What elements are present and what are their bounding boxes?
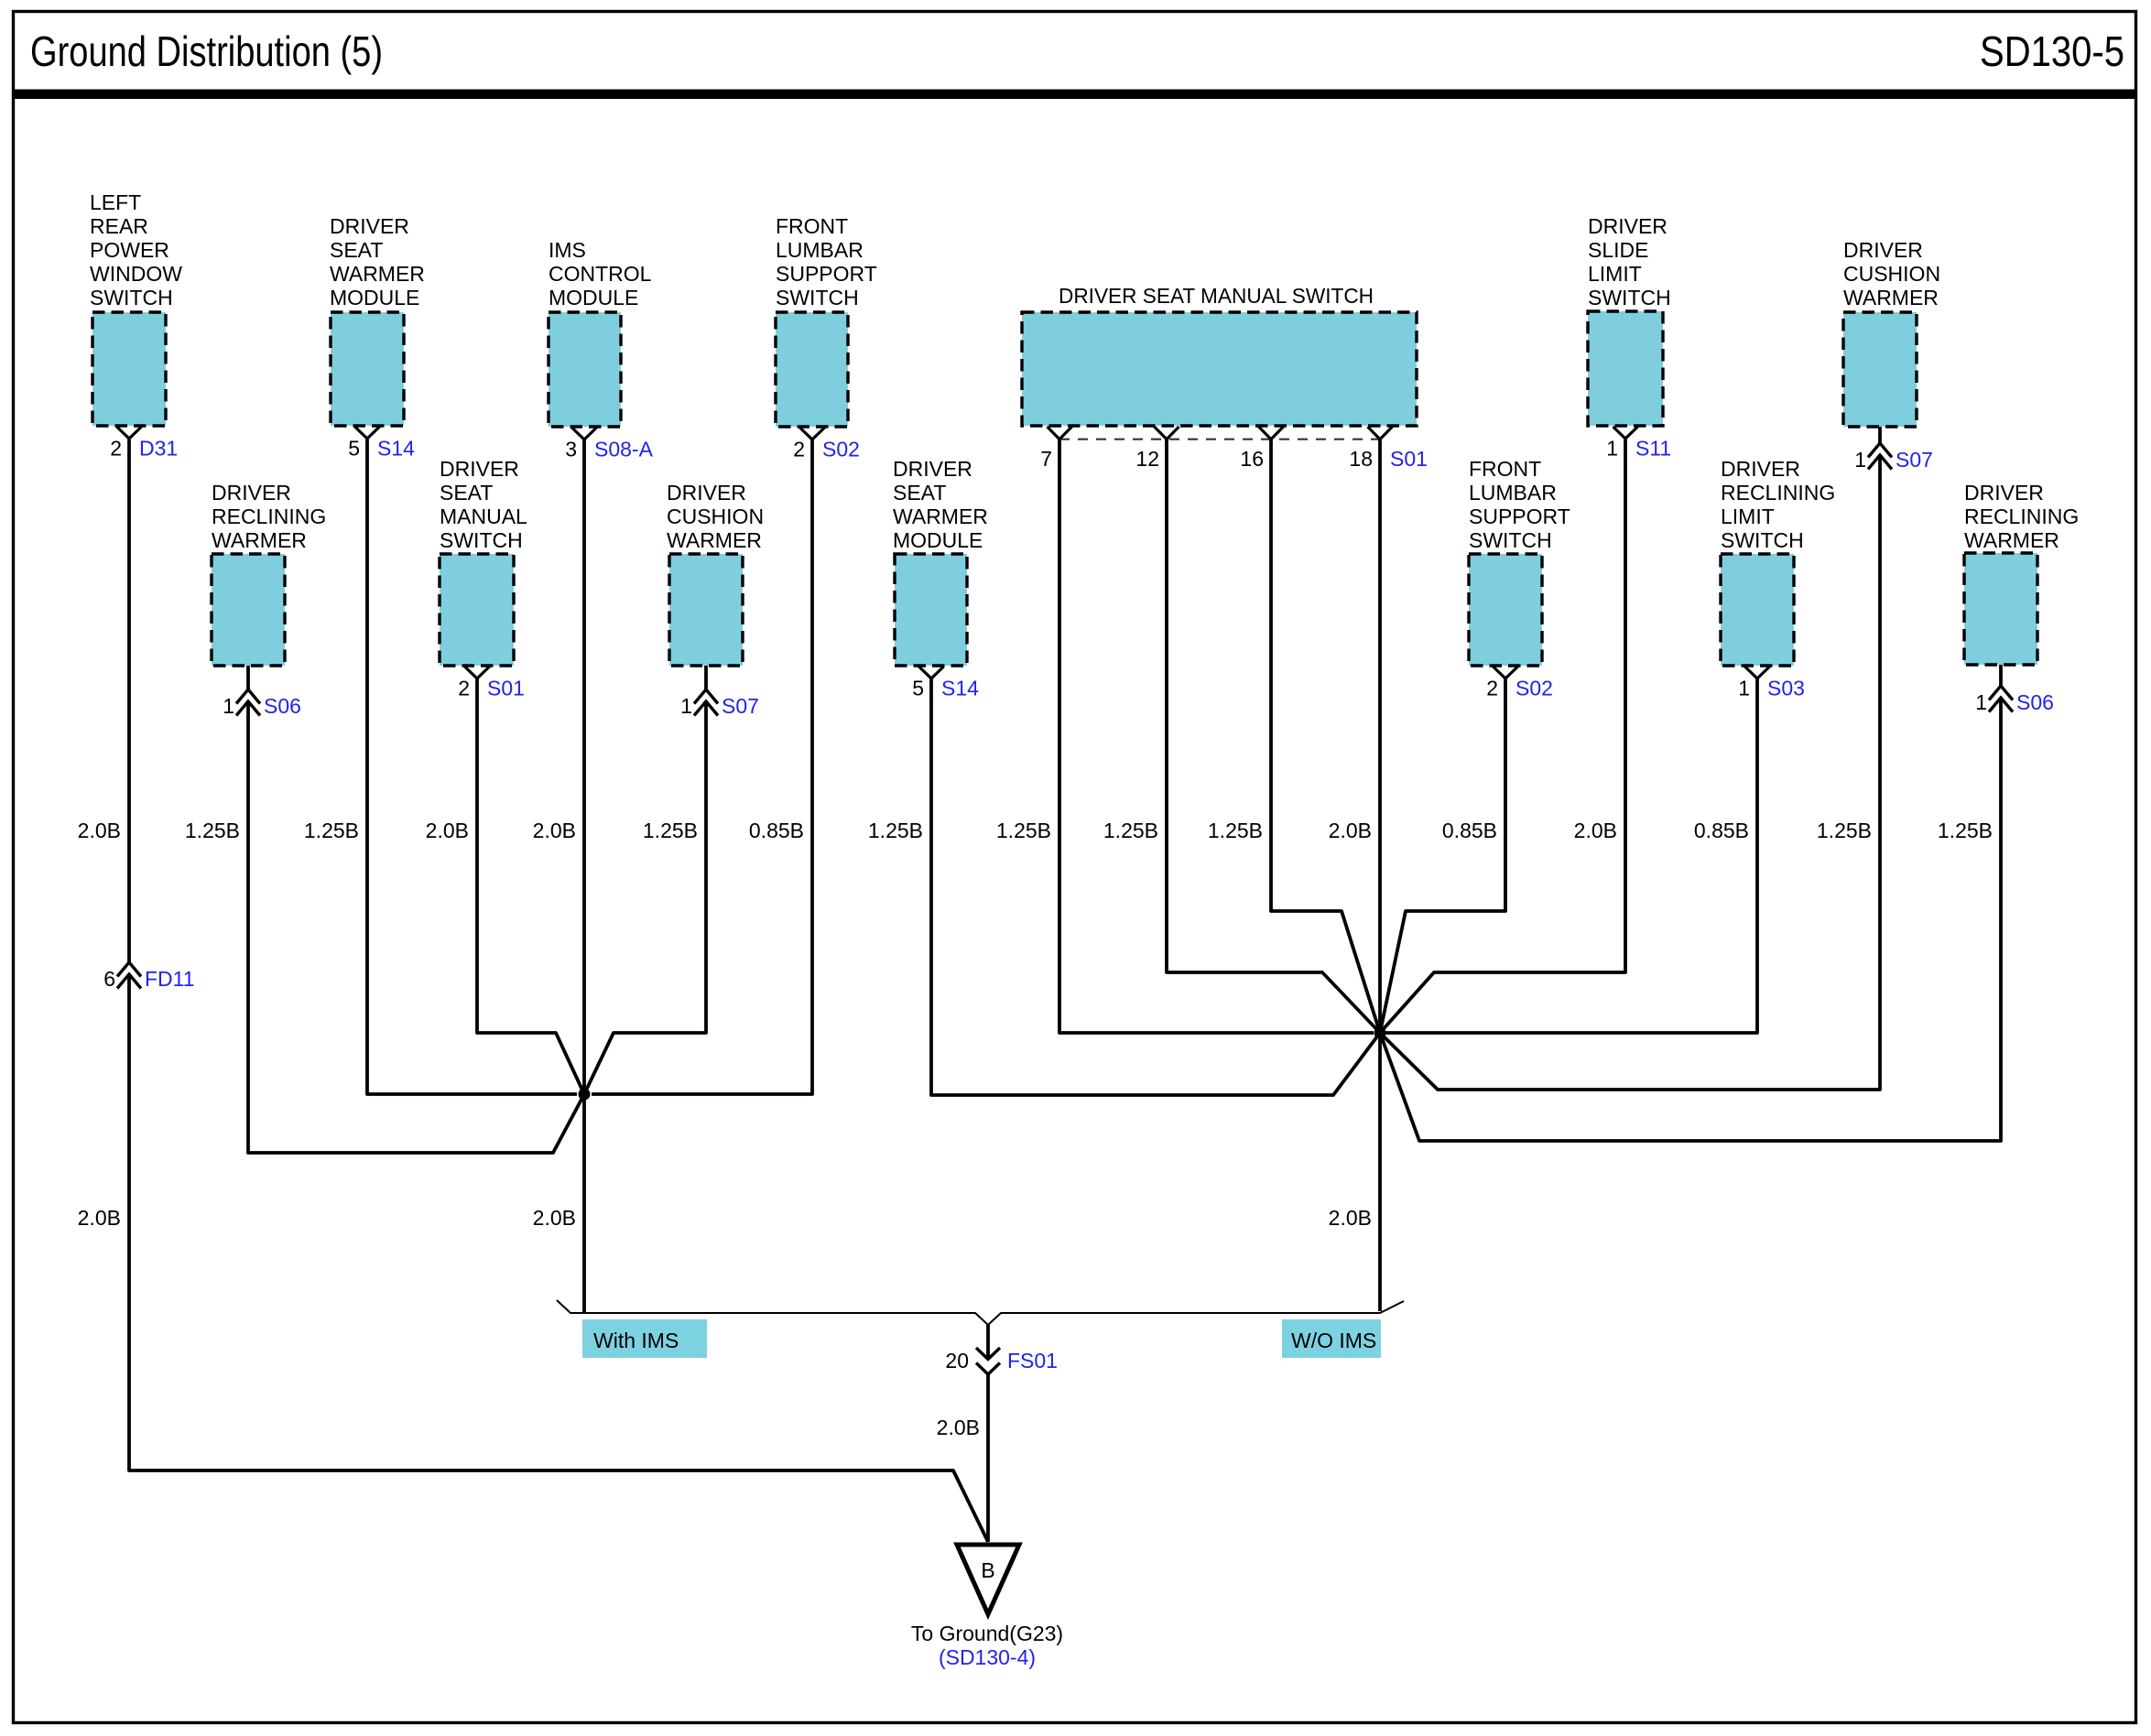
svg-text:DRIVER: DRIVER	[440, 457, 519, 481]
svg-text:WARMER: WARMER	[1964, 528, 2059, 552]
svg-text:S01: S01	[1390, 447, 1428, 471]
svg-text:LIMIT: LIMIT	[1721, 505, 1775, 528]
junction dot left	[579, 1089, 591, 1101]
svg-text:6: 6	[103, 967, 115, 991]
svg-text:DRIVER: DRIVER	[893, 457, 972, 481]
svg-text:FS01: FS01	[1007, 1349, 1058, 1373]
label DRIVER RECLINING LIMIT SWITCH	[1721, 457, 1835, 552]
svg-text:SD130-5: SD130-5	[1980, 27, 2124, 75]
svg-text:MODULE: MODULE	[549, 286, 638, 309]
svg-text:SWITCH: SWITCH	[90, 286, 173, 309]
svg-text:DRIVER: DRIVER	[330, 214, 409, 238]
connector S01 pin 16	[1240, 427, 1283, 471]
title separator bar	[12, 90, 2137, 100]
svg-text:2.0B: 2.0B	[533, 1206, 576, 1230]
svg-text:16: 16	[1240, 447, 1264, 471]
svg-text:5: 5	[348, 437, 360, 461]
label DRIVER SLIDE LIMIT SWITCH	[1588, 214, 1671, 309]
svg-text:IMS: IMS	[549, 238, 586, 262]
svg-text:S14: S14	[377, 437, 415, 461]
svg-text:WARMER: WARMER	[893, 505, 988, 528]
svg-text:1.25B: 1.25B	[1208, 819, 1263, 842]
component DRIVER RECLINING WARMER (right)	[1964, 553, 2037, 665]
svg-text:WINDOW: WINDOW	[90, 262, 182, 286]
svg-text:LUMBAR: LUMBAR	[1469, 481, 1557, 505]
wire pin16 to junction	[1271, 439, 1380, 1033]
svg-text:LIMIT: LIMIT	[1588, 262, 1642, 286]
component DRIVER RECLINING LIMIT SWITCH	[1721, 554, 1794, 666]
svg-text:LUMBAR: LUMBAR	[776, 238, 864, 262]
svg-text:SUPPORT: SUPPORT	[776, 262, 877, 286]
svg-text:0.85B: 0.85B	[749, 819, 804, 842]
svg-text:1: 1	[223, 694, 234, 718]
svg-text:DRIVER: DRIVER	[212, 481, 291, 505]
wire S03 to junction	[1380, 678, 1757, 1033]
label DRIVER CUSHION WARMER (mid)	[667, 481, 764, 552]
svg-text:WARMER: WARMER	[1843, 286, 1939, 309]
svg-text:RECLINING: RECLINING	[1964, 505, 2079, 528]
svg-text:S11: S11	[1635, 437, 1671, 461]
svg-text:DRIVER SEAT MANUAL SWITCH: DRIVER SEAT MANUAL SWITCH	[1059, 284, 1374, 308]
svg-text:2: 2	[458, 677, 470, 700]
svg-text:SEAT: SEAT	[893, 481, 946, 505]
connector S01 pin 7	[1040, 427, 1071, 471]
svg-text:B: B	[981, 1558, 994, 1582]
wire S06 left to junction	[248, 701, 584, 1153]
svg-text:S08-A: S08-A	[594, 438, 654, 461]
svg-text:1: 1	[1975, 690, 1987, 714]
svg-text:1.25B: 1.25B	[1938, 819, 1993, 842]
svg-text:D31: D31	[139, 437, 178, 461]
svg-text:1.25B: 1.25B	[304, 819, 359, 842]
wire S07 top to junction	[1380, 455, 1880, 1090]
wire S02 mid to junction	[1380, 678, 1505, 1033]
connector S01 pin 2	[458, 667, 525, 700]
connector S01 pin 18	[1349, 427, 1428, 471]
svg-text:12: 12	[1135, 447, 1159, 471]
wire S11 to junction	[1380, 439, 1625, 1033]
svg-text:WARMER: WARMER	[212, 528, 307, 552]
svg-text:2: 2	[1486, 677, 1498, 700]
svg-text:18: 18	[1349, 447, 1373, 471]
svg-text:W/O IMS: W/O IMS	[1291, 1329, 1376, 1352]
component DRIVER SEAT MANUAL SWITCH (large)	[1022, 312, 1417, 426]
wire S14 mid to junction	[931, 678, 1380, 1095]
svg-text:To Ground(G23): To Ground(G23)	[911, 1622, 1063, 1645]
svg-text:DRIVER: DRIVER	[1843, 238, 1923, 262]
label DRIVER SEAT WARMER MODULE (mid)	[893, 457, 988, 552]
svg-text:2.0B: 2.0B	[1329, 819, 1372, 842]
svg-text:RECLINING: RECLINING	[1721, 481, 1835, 505]
svg-text:S03: S03	[1767, 677, 1805, 700]
svg-text:MANUAL: MANUAL	[440, 505, 527, 528]
svg-text:1: 1	[680, 694, 692, 718]
svg-text:FRONT: FRONT	[1469, 457, 1541, 481]
ground symbol B (G23)	[957, 1545, 1019, 1614]
connector S07 pin 1 (top)	[1854, 427, 1933, 472]
connector FS01 pin 20	[945, 1348, 1058, 1374]
connector S03 pin 1	[1738, 667, 1805, 700]
connector S14 pin 5	[348, 427, 415, 461]
svg-text:RECLINING: RECLINING	[212, 505, 326, 528]
svg-text:S01: S01	[487, 677, 525, 700]
svg-text:S06: S06	[264, 694, 301, 718]
svg-text:3: 3	[565, 438, 577, 461]
svg-text:SLIDE: SLIDE	[1588, 238, 1648, 262]
svg-text:SWITCH: SWITCH	[440, 528, 523, 552]
label DRIVER SEAT MANUAL SWITCH (small)	[440, 457, 527, 552]
wire S07 mid to junction	[584, 701, 706, 1094]
svg-text:SWITCH: SWITCH	[1469, 528, 1552, 552]
wire pin7 to junction	[1059, 439, 1374, 1033]
component FRONT LUMBAR SUPPORT SWITCH (top)	[776, 312, 848, 427]
svg-text:DRIVER: DRIVER	[1721, 457, 1800, 481]
svg-text:SWITCH: SWITCH	[1588, 286, 1671, 309]
component DRIVER SEAT WARMER MODULE (top)	[331, 312, 404, 426]
svg-text:S07: S07	[1896, 448, 1933, 472]
svg-text:1.25B: 1.25B	[643, 819, 698, 842]
wire pin12 to junction	[1167, 439, 1380, 1033]
svg-text:WARMER: WARMER	[330, 262, 425, 286]
svg-text:2.0B: 2.0B	[1329, 1206, 1372, 1230]
svg-text:FD11: FD11	[145, 967, 195, 991]
svg-text:MODULE: MODULE	[330, 286, 419, 309]
component DRIVER CUSHION WARMER (mid)	[669, 554, 743, 666]
svg-text:(SD130-4): (SD130-4)	[939, 1645, 1036, 1669]
svg-text:2.0B: 2.0B	[78, 1206, 121, 1230]
svg-text:5: 5	[912, 677, 924, 700]
wire pin18 through junction to bracket	[1378, 439, 1382, 1311]
svg-text:Ground Distribution (5): Ground Distribution (5)	[30, 27, 383, 75]
label LEFT REAR POWER WINDOW SWITCH	[90, 190, 182, 309]
svg-text:2: 2	[110, 437, 122, 461]
svg-text:2.0B: 2.0B	[533, 819, 576, 842]
svg-text:1.25B: 1.25B	[185, 819, 240, 842]
svg-text:1: 1	[1738, 677, 1750, 700]
svg-text:SUPPORT: SUPPORT	[1469, 505, 1570, 528]
svg-text:2: 2	[793, 438, 805, 461]
label DRIVER RECLINING WARMER (left)	[212, 481, 326, 552]
component DRIVER CUSHION WARMER (top)	[1843, 312, 1917, 427]
svg-text:LEFT: LEFT	[90, 190, 141, 214]
svg-text:CUSHION: CUSHION	[667, 505, 764, 528]
wire S06 right to junction	[1380, 698, 2001, 1141]
svg-text:7: 7	[1040, 447, 1052, 471]
component DRIVER SEAT MANUAL SWITCH (small)	[440, 554, 514, 666]
svg-text:S07: S07	[722, 694, 759, 718]
connector S11 pin 1	[1606, 427, 1671, 461]
svg-text:DRIVER: DRIVER	[1964, 481, 2044, 505]
svg-text:REAR: REAR	[90, 214, 148, 238]
svg-text:POWER: POWER	[90, 238, 169, 262]
svg-text:1: 1	[1854, 448, 1866, 472]
wire D31 upper segment	[127, 439, 131, 962]
svg-text:S02: S02	[822, 438, 860, 461]
svg-text:SWITCH: SWITCH	[776, 286, 859, 309]
label DRIVER SEAT WARMER MODULE (top)	[330, 214, 425, 309]
svg-text:S14: S14	[941, 677, 979, 700]
svg-text:WARMER: WARMER	[667, 528, 762, 552]
wire S08-A through junction to bracket	[582, 439, 586, 1312]
option chip With IMS	[582, 1319, 707, 1358]
connector S02 pin 2	[793, 428, 860, 461]
component DRIVER RECLINING WARMER (left)	[212, 554, 285, 666]
connector S08-A pin 3	[565, 428, 653, 461]
svg-text:1.25B: 1.25B	[1103, 819, 1158, 842]
svg-text:CUSHION: CUSHION	[1843, 262, 1940, 286]
svg-text:With IMS: With IMS	[593, 1329, 679, 1352]
component DRIVER SEAT WARMER MODULE (mid)	[895, 554, 967, 666]
connector S02 pin 2 (mid)	[1486, 667, 1553, 700]
wire S01 small to junction	[477, 678, 584, 1094]
svg-text:SEAT: SEAT	[330, 238, 383, 262]
component IMS CONTROL MODULE	[549, 312, 621, 427]
svg-text:FRONT: FRONT	[776, 214, 848, 238]
svg-text:MODULE: MODULE	[893, 528, 983, 552]
option chip W/O IMS	[1282, 1319, 1381, 1358]
svg-text:1.25B: 1.25B	[996, 819, 1051, 842]
option bracket line	[557, 1300, 1404, 1325]
wire S02 to junction	[592, 439, 812, 1094]
component DRIVER SLIDE LIMIT SWITCH	[1588, 311, 1663, 426]
svg-text:1.25B: 1.25B	[1817, 819, 1872, 842]
svg-text:SWITCH: SWITCH	[1721, 528, 1804, 552]
svg-text:1: 1	[1606, 437, 1618, 461]
svg-text:20: 20	[945, 1349, 969, 1373]
svg-text:2.0B: 2.0B	[78, 819, 121, 842]
label IMS CONTROL MODULE	[549, 238, 652, 309]
svg-text:2.0B: 2.0B	[1574, 819, 1617, 842]
svg-text:2.0B: 2.0B	[426, 819, 469, 842]
connector S07 pin 1 (mid)	[680, 666, 759, 718]
junction dot right	[1374, 1027, 1386, 1039]
svg-text:DRIVER: DRIVER	[1588, 214, 1668, 238]
wire D31 lower segment to ground	[129, 974, 988, 1542]
connector FD11 pin 6	[103, 962, 194, 991]
label DRIVER RECLINING WARMER (right)	[1964, 481, 2079, 552]
wire S14 to junction	[367, 439, 577, 1094]
wire FS01 upper stub	[986, 1325, 990, 1359]
svg-text:S02: S02	[1515, 677, 1553, 700]
component FRONT LUMBAR SUPPORT SWITCH (mid)	[1469, 554, 1542, 666]
connector S06 pin 1 (right)	[1975, 665, 2054, 714]
svg-text:1.25B: 1.25B	[868, 819, 923, 842]
svg-text:2.0B: 2.0B	[937, 1416, 980, 1439]
label DRIVER CUSHION WARMER (top)	[1843, 238, 1940, 309]
wire FS01 to ground	[986, 1374, 990, 1542]
svg-text:S06: S06	[2016, 690, 2054, 714]
connector D31 pin 2	[110, 427, 178, 461]
connector S01 pin 12	[1135, 427, 1179, 471]
connector S14 pin 5 (mid)	[912, 667, 979, 700]
svg-text:DRIVER: DRIVER	[667, 481, 746, 505]
connector pin line dashed	[1059, 439, 1380, 440]
svg-text:SEAT: SEAT	[440, 481, 493, 505]
connector S06 pin 1 (left)	[223, 666, 301, 718]
component LEFT REAR POWER WINDOW SWITCH	[92, 312, 166, 426]
label FRONT LUMBAR SUPPORT SWITCH (mid)	[1469, 457, 1570, 552]
label FRONT LUMBAR SUPPORT SWITCH (top)	[776, 214, 877, 309]
svg-text:0.85B: 0.85B	[1442, 819, 1497, 842]
svg-text:0.85B: 0.85B	[1694, 819, 1749, 842]
svg-text:CONTROL: CONTROL	[549, 262, 652, 286]
